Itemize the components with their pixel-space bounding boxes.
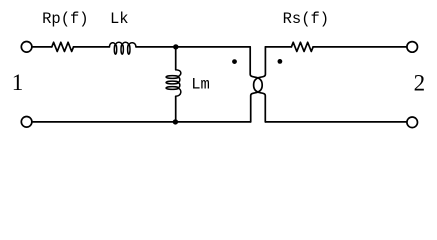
svg-text:2: 2: [414, 70, 426, 95]
svg-text:1: 1: [12, 70, 23, 95]
svg-text:Lk: Lk: [110, 10, 129, 28]
svg-text:Rp(f): Rp(f): [42, 10, 89, 28]
svg-text:Lm: Lm: [191, 76, 210, 94]
svg-text:Rs(f): Rs(f): [283, 10, 330, 28]
